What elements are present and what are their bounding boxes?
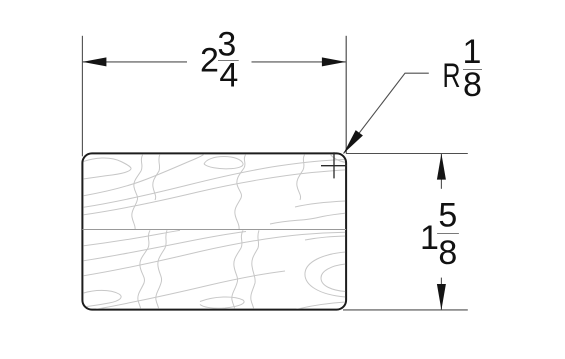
svg-text:8: 8 (463, 66, 482, 104)
wood grain hatch (82, 154, 346, 309)
board mid seam line (82, 229, 346, 231)
left arrowhead (82, 57, 106, 66)
left extension line (81, 36, 83, 157)
svg-text:2: 2 (200, 42, 219, 80)
top dimension line (2 3/4) (82, 61, 187, 63)
svg-text:8: 8 (438, 234, 457, 272)
radius leader line (344, 73, 429, 153)
bottom extension line (1 5/8) (343, 309, 468, 311)
right arrowhead (322, 57, 346, 66)
board cross-section outline (82, 153, 346, 309)
svg-text:4: 4 (219, 57, 238, 95)
top extension line (1 5/8) (346, 153, 468, 155)
right extension line (345, 36, 347, 154)
down arrowhead (437, 284, 446, 310)
up arrowhead (437, 154, 446, 180)
svg-text:R: R (443, 57, 461, 95)
right dimension line (1 5/8) (440, 154, 442, 189)
radius center mark cross (321, 152, 347, 178)
leader arrowhead (344, 130, 363, 153)
svg-text:1: 1 (420, 219, 439, 257)
svg-text:5: 5 (438, 197, 457, 235)
